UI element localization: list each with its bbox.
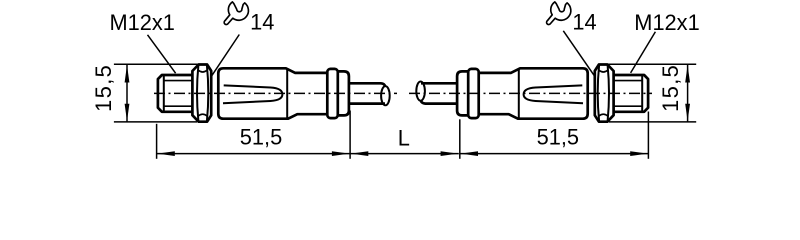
left hex nut chamfer arcs [198, 70, 207, 72]
dimension 15,5 left dimension line [126, 64, 128, 122]
right connector molded body outline [479, 68, 588, 118]
dimension L arrow right [441, 151, 459, 156]
right body mold groove (funnel line) [524, 85, 583, 103]
right connector coupling-nut thread section outline [614, 75, 648, 112]
svg-text:15,5: 15,5 [91, 64, 116, 112]
dimension 51,5 right extension line right [647, 112, 649, 159]
dimension 15,5 right extension line top [602, 63, 697, 65]
dimension 51,5 right extension line left [459, 119, 461, 159]
svg-text:14: 14 [572, 9, 596, 34]
left connector molded body outline [218, 68, 327, 118]
right connector hex nut SW14 outline [595, 65, 614, 122]
dimension 51,5 right dimension line [460, 153, 649, 155]
left cable cut-end ellipse [381, 86, 390, 105]
left cable top line with cut corner [349, 83, 385, 86]
left cable bottom line [349, 102, 385, 105]
svg-text:L: L [398, 125, 410, 150]
right connector thread root line bottom [614, 105, 642, 107]
dimension 15,5 left extension line top [114, 63, 204, 65]
dimension L line [350, 153, 459, 155]
svg-text:15,5: 15,5 [658, 64, 683, 112]
leader line wrench left [212, 35, 240, 76]
right cable-exit end cap outline [457, 71, 468, 115]
dimension 51,5 left arrow left [157, 151, 175, 156]
left connector hex nut SW14 outline [192, 65, 211, 122]
right cable cut-end ellipse [416, 82, 425, 101]
dimension 15,5 right arrow up [685, 65, 690, 83]
left connector thread root line bottom [164, 105, 192, 107]
right body cone boundary line [518, 69, 520, 119]
left body cone boundary line [286, 69, 288, 119]
left strain-relief collar ring [327, 69, 338, 118]
wrench icon right (SW14) [547, 2, 571, 25]
svg-text:M12x1: M12x1 [109, 10, 174, 35]
right hex nut chamfer arcs [599, 70, 608, 72]
centerline left connector axis [154, 92, 397, 94]
dimension 51,5 left extension line right [349, 111, 351, 159]
leader line M12x1 right [631, 32, 656, 73]
left connector coupling-nut thread section outline [158, 75, 192, 112]
dimension 15,5 left arrow down [125, 104, 130, 122]
svg-text:M12x1: M12x1 [634, 10, 699, 35]
right cable top line [421, 82, 457, 85]
dimension 51,5 left extension line left [156, 124, 158, 159]
dimension 15,5 right arrow down [685, 104, 690, 122]
right cable bottom line with cut corner [421, 100, 457, 103]
svg-text:51,5: 51,5 [537, 124, 579, 149]
dimension L arrow left [351, 151, 369, 156]
dimension 51,5 right arrow right [630, 151, 648, 156]
leader line M12x1 left [148, 35, 176, 73]
left connector thread face step line [163, 75, 165, 111]
left connector thread root line top [164, 80, 192, 82]
centerline right connector axis [409, 92, 652, 94]
right connector thread face step line [641, 75, 643, 111]
left hex nut facet edge lines [197, 65, 198, 121]
dimension 15,5 right dimension line [687, 64, 689, 122]
dimension 15,5 left extension line bottom [114, 121, 197, 123]
dimension 51,5 left dimension line [157, 153, 351, 155]
right connector thread root line top [614, 80, 642, 82]
left cable-exit end cap outline [338, 71, 349, 115]
wrench icon left (SW14) [224, 2, 248, 25]
right hex nut facet edge lines [608, 65, 609, 121]
dimension 51,5 left arrow right [332, 151, 350, 156]
svg-text:14: 14 [250, 9, 274, 34]
svg-text:51,5: 51,5 [240, 124, 282, 149]
dimension 15,5 left arrow up [125, 65, 130, 83]
dimension 51,5 right arrow left [461, 151, 479, 156]
right strain-relief collar ring [468, 69, 479, 118]
dimension 15,5 right extension line bottom [609, 121, 696, 123]
left body mold groove (funnel line) [223, 85, 282, 103]
leader line wrench right [563, 31, 594, 76]
